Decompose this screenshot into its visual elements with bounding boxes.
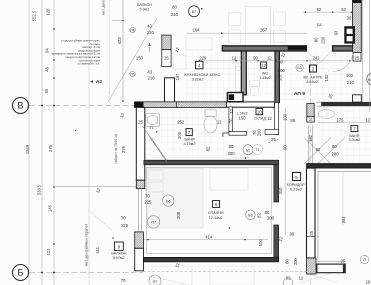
tiled floor bath2 <box>317 107 371 163</box>
box 12 WC <box>261 62 267 68</box>
label A2 <box>90 79 102 85</box>
svg-text:1.43м2: 1.43м2 <box>259 76 271 80</box>
svg-text:164: 164 <box>193 28 201 33</box>
svg-text:А2: А2 <box>96 79 103 85</box>
svg-text:150: 150 <box>136 55 144 60</box>
svg-text:5.67м2: 5.67м2 <box>113 256 125 260</box>
svg-text:100: 100 <box>282 113 287 121</box>
svg-text:65: 65 <box>44 88 49 93</box>
svg-text:95: 95 <box>290 118 295 123</box>
box 5 corridor <box>293 172 301 180</box>
svg-text:229: 229 <box>199 56 207 61</box>
wall double-line segment right of hatch <box>226 102 274 107</box>
axis line Б horizontal <box>29 272 143 274</box>
circle Б2 <box>243 145 253 155</box>
svg-text:6.21м2: 6.21м2 <box>290 188 302 192</box>
box 6 bedroom <box>213 201 220 208</box>
WC label <box>259 72 271 81</box>
svg-text:70: 70 <box>228 118 233 123</box>
top wall segment right of door <box>333 46 354 51</box>
box 7 bath1 <box>186 129 192 136</box>
svg-text:мет. декоративен парапет: мет. декоративен парапет <box>85 224 89 266</box>
tiled floor antre <box>280 52 352 101</box>
parapet leader diagonal <box>88 210 112 230</box>
svg-text:82: 82 <box>256 213 261 218</box>
svg-text:80: 80 <box>229 144 234 149</box>
top T wall horizontal black <box>222 46 306 51</box>
hatched pier under left wall <box>136 180 145 188</box>
bedroom inner outline <box>147 168 272 254</box>
circle П marker bottom right <box>360 255 368 263</box>
svg-text:БАНЯ: БАНЯ <box>184 138 194 142</box>
right hatched column top <box>353 0 362 52</box>
svg-text:П7: П7 <box>153 280 158 284</box>
faint bed in bedroom <box>147 168 248 228</box>
bottom dashed balcony line <box>143 271 317 273</box>
skald right wall <box>275 102 279 134</box>
svg-text:Т1: Т1 <box>150 126 154 130</box>
tiled floor bath1 <box>144 108 228 159</box>
corridor labels <box>287 183 305 191</box>
svg-text:210: 210 <box>147 30 155 35</box>
left rotated dims <box>25 8 101 256</box>
white pier corner lower left <box>135 248 144 270</box>
building outer edge lines right <box>362 0 364 102</box>
svg-text:411: 411 <box>95 246 100 253</box>
svg-text:95: 95 <box>290 232 295 237</box>
svg-text:167: 167 <box>175 73 180 81</box>
svg-text:302: 302 <box>341 216 346 224</box>
svg-text:210: 210 <box>347 80 355 85</box>
svg-text:12: 12 <box>299 275 304 280</box>
svg-text:12: 12 <box>229 108 234 113</box>
balcony diagonal short <box>109 0 111 103</box>
svg-text:276: 276 <box>121 145 126 153</box>
left dim line 1 <box>28 0 30 285</box>
svg-text:П7: П7 <box>151 221 156 225</box>
svg-text:Б4: Б4 <box>317 23 321 27</box>
bedroom right wall upper <box>274 165 279 202</box>
svg-text:82: 82 <box>316 147 321 152</box>
svg-text:П6: П6 <box>130 29 135 33</box>
chimney bump АП9 <box>353 95 362 102</box>
svg-text:94: 94 <box>45 48 50 53</box>
box 8 balcony <box>115 242 124 250</box>
left building wall vertical (double) <box>136 107 145 180</box>
svg-text:АП 9: АП 9 <box>294 91 305 97</box>
svg-text:Б2: Б2 <box>246 148 250 152</box>
svg-text:5.9м2: 5.9м2 <box>140 8 150 12</box>
svg-text:БАНЯ: БАНЯ <box>349 134 359 138</box>
svg-text:100: 100 <box>258 239 263 247</box>
svg-text:121: 121 <box>46 248 51 256</box>
circle axis В <box>13 98 29 114</box>
svg-text:3.82м2: 3.82м2 <box>192 77 204 81</box>
WC wall vertical <box>241 51 246 95</box>
dim line y33 <box>186 32 307 34</box>
svg-text:12: 12 <box>365 117 370 122</box>
circle Б3 bedroom door <box>246 210 256 220</box>
svg-text:СПАЛНЯ: СПАЛНЯ <box>208 211 224 215</box>
svg-text:1359: 1359 <box>25 144 30 154</box>
svg-text:Б3: Б3 <box>297 66 301 70</box>
pier 25 box <box>162 50 171 67</box>
main hatched wall horizontal <box>135 102 227 108</box>
bath1 label <box>184 138 196 147</box>
antre left wall vertical upper <box>275 51 279 102</box>
axis line vertical АП9 <box>310 60 312 285</box>
svg-text:80: 80 <box>172 5 177 10</box>
svg-text:92: 92 <box>317 7 322 12</box>
balcony dim line x123 <box>122 0 124 102</box>
АП9 wall joint tick <box>307 236 316 238</box>
tiled floor kitchen <box>186 51 240 101</box>
dim line y60.8 <box>196 60 352 62</box>
window П7 thin lines <box>138 188 140 232</box>
skald bottom-left stub <box>229 132 247 136</box>
svg-text:43: 43 <box>147 70 152 75</box>
svg-text:25: 25 <box>138 120 143 125</box>
svg-text:СКЛАД: СКЛАД <box>254 116 267 120</box>
svg-text:10: 10 <box>257 110 262 115</box>
svg-text:КУХНЕНСКИ БОКС: КУХНЕНСКИ БОКС <box>184 72 220 77</box>
duct box with black column kitchen <box>227 93 243 102</box>
kitchen label <box>184 72 220 82</box>
svg-text:200: 200 <box>332 151 340 156</box>
svg-text:80: 80 <box>332 144 337 149</box>
svg-text:82: 82 <box>206 146 211 151</box>
svg-text:80: 80 <box>284 259 289 264</box>
svg-text:100: 100 <box>324 74 329 82</box>
bedroom right wall lower <box>274 225 279 258</box>
black cap left end of hatched wall <box>135 102 144 108</box>
faint bottom structures below wall <box>148 266 338 285</box>
bedroom bottom wall black <box>144 257 279 261</box>
skald bottom-right foot <box>265 130 279 135</box>
faint bath fixtures bath2 <box>304 110 345 165</box>
text cut right edge <box>367 73 371 85</box>
svg-text:П6: П6 <box>130 73 135 77</box>
svg-text:12: 12 <box>267 116 272 121</box>
svg-text:80: 80 <box>278 59 283 64</box>
svg-text:414: 414 <box>205 234 213 239</box>
kitchen appliance black <box>344 26 355 43</box>
wall divider ticks <box>176 102 178 108</box>
АП9 left wall double lower <box>307 168 316 258</box>
svg-text:В: В <box>17 101 23 111</box>
bath2 bottom wall <box>307 164 371 169</box>
svg-text:90: 90 <box>253 56 258 61</box>
door swing marks near box 2 <box>307 51 318 64</box>
circle Б7 <box>189 6 203 17</box>
svg-text:стоманобет. пл.: стоманобет. пл. <box>78 62 101 66</box>
svg-text:12: 12 <box>261 63 266 68</box>
svg-text:25: 25 <box>355 55 360 60</box>
circle Т1 <box>253 144 263 154</box>
svg-text:230: 230 <box>321 36 326 44</box>
svg-text:70: 70 <box>121 278 126 283</box>
hatched pier balcony <box>162 35 171 50</box>
circle П7 bottom <box>149 275 161 285</box>
svg-text:Б6: Б6 <box>166 199 170 203</box>
corridor vertical dim line <box>284 108 286 235</box>
right column 25 box <box>353 52 361 61</box>
svg-text:5: 5 <box>295 175 298 180</box>
svg-text:3.04м2: 3.04м2 <box>349 138 361 142</box>
svg-text:93: 93 <box>333 30 338 35</box>
bedroom top wall <box>144 160 279 165</box>
bath1 diagonal with text <box>143 126 168 162</box>
svg-text:80: 80 <box>265 210 270 215</box>
svg-text:167: 167 <box>278 73 283 81</box>
window marker П6 lower <box>129 72 135 77</box>
АП9 hatched pier top <box>307 104 314 117</box>
svg-text:200: 200 <box>228 151 236 156</box>
window marker П6 top <box>129 28 135 33</box>
svg-text:200: 200 <box>278 68 286 73</box>
faint kitchen cabinets top <box>173 7 286 69</box>
svg-text:12: 12 <box>232 56 237 61</box>
hatched pier lower left <box>135 232 144 248</box>
svg-text:25: 25 <box>341 258 346 263</box>
circle axis Б <box>13 265 29 281</box>
circle П7 top <box>147 216 159 228</box>
АП9 pier 25 box <box>307 117 314 122</box>
skald left wall <box>229 107 232 132</box>
bottom right wall horizontal <box>317 264 345 273</box>
svg-text:4.15м2: 4.15м2 <box>184 142 196 146</box>
bedroom dim line <box>144 239 268 241</box>
circle Б2 bottom partial <box>284 278 293 285</box>
svg-text:П: П <box>363 258 366 262</box>
svg-text:150: 150 <box>239 115 247 120</box>
svg-text:12: 12 <box>267 56 272 61</box>
right column black cap <box>353 0 362 3</box>
svg-text:БАЛКОН: БАЛКОН <box>137 3 152 7</box>
dim ticks left <box>41 20 124 274</box>
balcony diagonal line <box>108 18 157 102</box>
svg-text:252: 252 <box>177 120 185 125</box>
svg-text:М: М <box>368 78 371 82</box>
antre label <box>304 76 323 85</box>
svg-text:12: 12 <box>217 120 222 125</box>
svg-text:210: 210 <box>148 76 156 81</box>
balcony labels <box>111 252 126 260</box>
antre door arc <box>333 51 354 72</box>
svg-text:175: 175 <box>337 117 345 122</box>
svg-text:225: 225 <box>121 223 129 228</box>
box 4 kitchen <box>196 61 204 69</box>
box 7 bath2 <box>351 126 358 132</box>
svg-text:25: 25 <box>309 230 314 235</box>
balcony parapet line left <box>88 0 90 285</box>
svg-text:200: 200 <box>257 129 262 137</box>
АП9 window thin lines <box>308 125 310 163</box>
svg-text:70: 70 <box>121 216 126 221</box>
axis line B horizontal <box>29 105 134 107</box>
svg-text:25: 25 <box>271 137 276 142</box>
АП9 hatched pier bottom <box>307 258 317 274</box>
svg-text:мет. декор.: мет. декор. <box>102 0 106 15</box>
bottom right wall end cap <box>343 264 345 273</box>
box 2 door <box>310 65 317 72</box>
svg-text:12.34м2: 12.34м2 <box>209 216 223 220</box>
svg-text:145: 145 <box>48 204 53 212</box>
svg-text:Б: Б <box>18 268 24 278</box>
svg-text:габарит на 78/90 см: габарит на 78/90 см <box>114 134 118 163</box>
svg-text:200: 200 <box>267 215 275 220</box>
spec text block <box>51 39 100 66</box>
svg-text:Б7: Б7 <box>192 10 196 14</box>
tick dot bedroom corner <box>245 157 247 159</box>
balcony top label <box>137 3 152 12</box>
svg-text:210: 210 <box>171 12 179 17</box>
svg-text:100: 100 <box>346 73 354 78</box>
counter bar left kitchen <box>288 46 307 50</box>
svg-text:182: 182 <box>308 134 313 142</box>
svg-text:4.84м2: 4.84м2 <box>306 80 318 84</box>
svg-text:70: 70 <box>145 193 150 198</box>
svg-text:ВК. АНТРЕ: ВК. АНТРЕ <box>304 76 323 80</box>
svg-text:25: 25 <box>164 56 169 61</box>
dim line bottom left horizontal <box>54 186 136 188</box>
svg-text:90: 90 <box>282 145 287 150</box>
svg-text:128: 128 <box>46 8 51 16</box>
svg-text:200: 200 <box>293 257 298 265</box>
svg-text:Т1: Т1 <box>255 148 259 152</box>
svg-text:62: 62 <box>341 7 346 12</box>
svg-text:48: 48 <box>45 67 50 72</box>
dim line bath2 <box>318 122 371 124</box>
tiled floor WC <box>247 52 274 94</box>
svg-text:423: 423 <box>117 37 122 45</box>
svg-text:552.5: 552.5 <box>32 10 37 21</box>
corner bracket stub <box>223 133 229 137</box>
svg-text:275: 275 <box>48 144 53 152</box>
svg-text:267: 267 <box>260 28 268 33</box>
svg-text:90: 90 <box>314 37 319 42</box>
dim line y12 top right <box>303 11 352 13</box>
svg-text:205: 205 <box>177 131 182 139</box>
faint wardrobe top right <box>236 58 328 117</box>
svg-text:208: 208 <box>176 211 181 219</box>
bath2 labels <box>349 134 361 142</box>
svg-text:Б3: Б3 <box>248 214 252 218</box>
svg-text:310: 310 <box>278 187 283 195</box>
svg-text:30: 30 <box>347 16 352 21</box>
svg-text:WC: WC <box>262 72 268 76</box>
left dim line 3 <box>53 0 55 285</box>
svg-text:225: 225 <box>144 200 152 205</box>
left dim line 2 <box>41 0 43 285</box>
АП9 lower room inner outline <box>318 172 371 262</box>
AП9 top wall dark <box>317 102 371 106</box>
door gap bath2 top wall <box>316 102 321 106</box>
АП9 room partition faint <box>342 172 344 225</box>
door labels Б3 80/200 top <box>296 64 303 71</box>
faint bath fixtures bath1 <box>146 110 218 133</box>
circle Б6 <box>163 195 174 206</box>
chimney duct <box>165 78 175 103</box>
svg-text:533.5: 533.5 <box>37 184 42 195</box>
svg-text:43: 43 <box>147 23 152 28</box>
bedroom labels <box>208 211 224 220</box>
box 10 skald <box>256 109 263 115</box>
svg-text:25: 25 <box>309 118 313 122</box>
svg-text:18: 18 <box>366 280 371 285</box>
